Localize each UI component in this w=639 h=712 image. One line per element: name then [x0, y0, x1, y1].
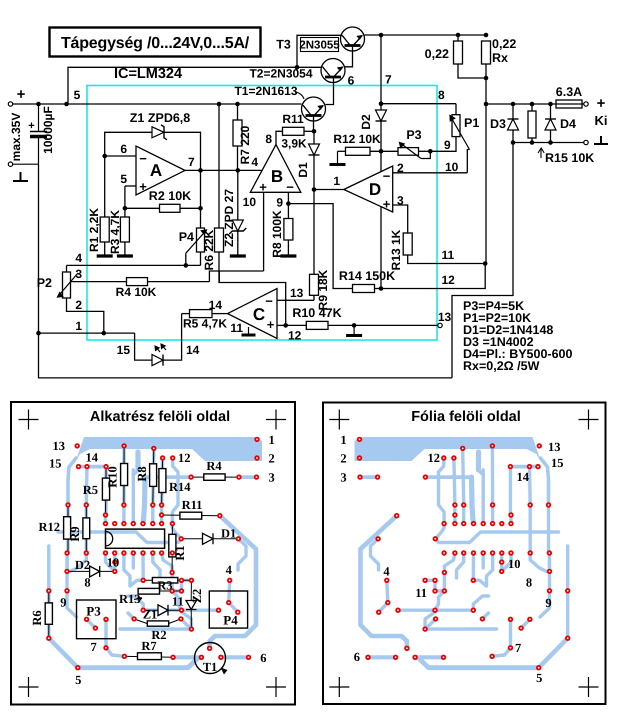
- svg-text:13: 13: [438, 310, 452, 324]
- svg-text:6: 6: [348, 74, 355, 88]
- pcb resistor R13: [138, 588, 159, 594]
- svg-text:4: 4: [383, 565, 390, 579]
- op-amp B: [250, 145, 300, 193]
- PCB solder pads: [75, 443, 80, 448]
- svg-text:−: −: [383, 169, 391, 184]
- wire R11 to T1 base: [304, 130, 314, 132]
- svg-text:B: B: [271, 167, 283, 186]
- svg-text:+: +: [139, 179, 147, 194]
- wire node8 down to P1: [455, 104, 457, 115]
- LM324 IC boundary (cyan): [87, 86, 437, 341]
- svg-text:13: 13: [548, 440, 561, 454]
- svg-text:7: 7: [515, 641, 521, 655]
- PCB corner mark: [266, 410, 286, 430]
- wire minus return loop: [452, 143, 513, 378]
- svg-text:8: 8: [526, 576, 532, 590]
- svg-text:P4: P4: [179, 230, 194, 244]
- svg-text:P3: P3: [406, 128, 421, 142]
- wire rail to 0,22: [457, 35, 459, 41]
- svg-text:12: 12: [442, 273, 456, 287]
- PCB corner mark: [19, 410, 39, 430]
- svg-text:+: +: [28, 120, 34, 132]
- svg-text:A: A: [150, 161, 162, 180]
- junction rail Rx: [484, 33, 489, 38]
- PCB copper traces: [68, 458, 76, 505]
- svg-text:7: 7: [385, 73, 392, 87]
- svg-text:R11: R11: [182, 498, 203, 512]
- ground R3: [117, 254, 133, 257]
- junction R15 top: [530, 102, 535, 107]
- wire R12 to P3: [370, 150, 398, 152]
- junction cap top: [36, 102, 41, 107]
- capacitor C1 10000uF: [38, 104, 40, 131]
- svg-text:R15 10K: R15 10K: [545, 151, 594, 165]
- wire R6 to C plus input: [219, 271, 286, 325]
- label 2N3055 box: [301, 38, 339, 52]
- wire R5 left: [182, 313, 190, 315]
- junction node 5: [64, 102, 69, 107]
- output + terminal: [584, 102, 588, 106]
- wire Z2 top: [237, 170, 239, 220]
- resistor R7 220: [233, 120, 242, 146]
- svg-text:R3 4,7K: R3 4,7K: [108, 210, 122, 254]
- junction A pin6: [102, 154, 107, 159]
- op-amp D: [344, 166, 393, 212]
- resistor R1 2,2K: [100, 217, 109, 242]
- resistor Rx 0,22: [482, 41, 491, 64]
- svg-text:11: 11: [172, 595, 184, 609]
- wire D4 bottom lead: [550, 130, 552, 143]
- wire node 7 vertical: [380, 35, 382, 110]
- wire gnd to R12: [338, 150, 346, 152]
- svg-text:13: 13: [290, 286, 304, 300]
- wire D2 to R14 node: [380, 121, 382, 289]
- svg-text:10: 10: [107, 556, 120, 570]
- wire R9 bottom: [313, 295, 315, 300]
- wire T3 collector: [297, 35, 341, 67]
- junction R7 Z2 pin4: [236, 168, 241, 173]
- svg-text:2: 2: [269, 452, 275, 466]
- wire C pin12: [277, 324, 286, 326]
- svg-text:15: 15: [551, 456, 564, 470]
- junction R2 P4: [198, 206, 203, 211]
- wire D3 bottom lead: [512, 130, 514, 143]
- junction rail R6: [217, 102, 222, 107]
- PCB foil side board: [323, 403, 606, 705]
- wire C pin13: [277, 299, 314, 301]
- transistor T2 2N3054: [321, 59, 345, 83]
- wire to D1: [313, 131, 315, 144]
- svg-text:4: 4: [251, 155, 258, 169]
- wire A pin 5: [125, 185, 136, 187]
- wire Z1 feedback loop: [105, 132, 201, 170]
- svg-text:Rx=0,2Ω /5W: Rx=0,2Ω /5W: [463, 359, 540, 373]
- svg-text:R9 18K: R9 18K: [316, 269, 330, 310]
- resistor R9 18K: [310, 274, 319, 295]
- svg-text:9: 9: [545, 596, 551, 610]
- wire R6 from rail: [218, 104, 220, 228]
- wire D1 bottom: [313, 155, 315, 190]
- pcb resistor R2: [147, 621, 168, 626]
- svg-text:13: 13: [53, 439, 66, 453]
- pcb resistor R9: [83, 518, 90, 539]
- wire D pin3 to R13: [393, 205, 408, 233]
- svg-text:3: 3: [269, 471, 275, 485]
- resistor R11 3,9K: [283, 127, 305, 135]
- wire Z2 bottom: [237, 231, 239, 255]
- pointer to T1: [295, 92, 304, 99]
- terminal node 13: [438, 323, 442, 327]
- wire node 12 link: [381, 264, 485, 289]
- svg-text:7: 7: [188, 155, 195, 169]
- component leads: [49, 446, 239, 657]
- svg-text:R5 4,7K: R5 4,7K: [183, 317, 227, 331]
- pcb resistor R7: [138, 653, 162, 660]
- svg-text:10: 10: [445, 160, 459, 174]
- svg-text:12: 12: [178, 451, 191, 465]
- diode D1: [309, 144, 320, 155]
- resistor R10 47K: [306, 321, 328, 329]
- junction pin12: [283, 323, 288, 328]
- wire R1 bottom: [104, 242, 106, 255]
- svg-text:14: 14: [86, 451, 99, 465]
- svg-text:+: +: [597, 95, 606, 112]
- wire R15 bottom lead: [531, 138, 533, 143]
- svg-text:Z1 ZPD6,8: Z1 ZPD6,8: [130, 111, 190, 125]
- wire to R10: [286, 324, 307, 326]
- svg-text:Fólia felöli oldal: Fólia felöli oldal: [411, 409, 521, 425]
- junction D pin1: [312, 187, 317, 192]
- svg-text:R9: R9: [68, 526, 82, 541]
- junction rail node7: [379, 33, 384, 38]
- svg-text:R8: R8: [135, 466, 149, 481]
- input + terminal: [8, 102, 12, 106]
- svg-text:P4: P4: [223, 613, 238, 628]
- wire R8 top: [287, 204, 289, 219]
- wire node 1: [39, 332, 135, 334]
- wire node3 jog to pin10: [209, 271, 263, 282]
- svg-text:R5: R5: [83, 483, 98, 497]
- svg-text:R14 150K: R14 150K: [339, 269, 395, 283]
- PCB copper traces: [541, 458, 549, 505]
- wire output minus: [513, 142, 584, 144]
- potentiometer P1: [452, 115, 460, 137]
- ground R8: [280, 254, 296, 257]
- wire R3 top: [124, 208, 126, 217]
- wire R8 bottom: [287, 240, 289, 255]
- wire node 11: [408, 255, 486, 264]
- svg-text:R10: R10: [106, 466, 120, 488]
- resistor R4 10K: [127, 278, 148, 286]
- svg-text:R12 10K: R12 10K: [333, 132, 381, 146]
- junction node8 tee: [379, 101, 384, 106]
- svg-text:+: +: [17, 86, 26, 103]
- wire P4 bottom: [200, 252, 202, 265]
- resistor R15 10K: [528, 111, 536, 138]
- svg-text:14: 14: [517, 470, 530, 484]
- svg-text:6: 6: [120, 142, 127, 156]
- svg-text:R6 22K: R6 22K: [202, 229, 216, 270]
- svg-text:Tápegység /0...24V,0...5A/: Tápegység /0...24V,0...5A/: [61, 35, 250, 52]
- PCB solder pads: [537, 443, 542, 448]
- wire T1 base lead: [313, 116, 315, 131]
- svg-text:Z2: Z2: [190, 589, 204, 604]
- svg-text:T3: T3: [276, 38, 291, 52]
- wire R6 link down: [218, 271, 220, 283]
- pcb diode D1: [203, 533, 214, 544]
- svg-text:5: 5: [75, 673, 81, 687]
- svg-text:1: 1: [340, 433, 346, 447]
- junction D4 bottom: [548, 140, 553, 145]
- wire P2 top: [66, 265, 68, 272]
- pcb transistor T1: [195, 643, 226, 674]
- junction R2 R3: [123, 206, 128, 211]
- svg-text:9: 9: [60, 596, 66, 610]
- wire R7 bottom: [237, 146, 239, 170]
- wire output rail from T3 emitter: [365, 34, 487, 36]
- diode D3: [508, 119, 519, 130]
- svg-text:Alkatrész felöli oldal: Alkatrész felöli oldal: [90, 409, 230, 425]
- svg-text:R13 1K: R13 1K: [389, 229, 403, 270]
- svg-text:T2=2N3054: T2=2N3054: [249, 67, 312, 81]
- svg-text:R10 47K: R10 47K: [292, 306, 341, 320]
- svg-text:R7 220: R7 220: [238, 125, 252, 164]
- junction gnd node13: [352, 323, 357, 328]
- wire P3 to node 9: [419, 150, 431, 152]
- pcb pot P3 box: [77, 600, 117, 639]
- junction D4 top: [548, 102, 553, 107]
- junction R14 D2 line: [379, 286, 384, 291]
- PCB corner mark: [329, 410, 349, 430]
- svg-text:6: 6: [260, 651, 266, 665]
- wire R14 right: [375, 288, 382, 290]
- resistor R5 4,7K: [190, 310, 213, 318]
- junction rail R7: [235, 102, 240, 107]
- svg-text:C: C: [253, 305, 265, 324]
- transistor T3 2N3055: [341, 27, 365, 51]
- wire V+ to transistors: [68, 67, 297, 104]
- svg-text:+: +: [259, 180, 267, 195]
- pcb diode D2: [90, 566, 100, 577]
- svg-text:10: 10: [508, 557, 521, 571]
- svg-text:5: 5: [536, 671, 542, 685]
- PCB corner mark: [579, 410, 599, 430]
- title box: [50, 28, 261, 57]
- wire R1 top: [104, 156, 106, 217]
- wire B pin9 down: [287, 192, 289, 203]
- zener Z1: [152, 127, 164, 138]
- wire to T2 collector: [297, 66, 321, 68]
- svg-text:D2: D2: [75, 558, 90, 572]
- svg-text:10: 10: [243, 195, 257, 209]
- wire pin5 down: [124, 186, 126, 208]
- svg-text:7: 7: [90, 640, 96, 654]
- pcb resistor R5: [102, 478, 109, 500]
- potentiometer P2: [63, 272, 71, 298]
- PCB corner mark: [266, 677, 286, 697]
- wire R6 bottom: [218, 252, 220, 271]
- input - terminal: [8, 162, 12, 166]
- wire R9 top: [313, 190, 315, 275]
- output - terminal: [584, 140, 588, 144]
- diode D4: [545, 119, 556, 130]
- junction R11 D1: [312, 129, 317, 134]
- wire node 3: [71, 281, 210, 283]
- input minus symbol: [13, 172, 28, 181]
- PCB component side board: [11, 402, 295, 705]
- junction rail 0,22: [456, 33, 461, 38]
- wire B pin10 down: [263, 192, 265, 271]
- wire to LED: [135, 333, 152, 360]
- svg-text:3,9K: 3,9K: [281, 137, 307, 151]
- junction node 9: [428, 149, 433, 154]
- pcb resistor R3: [152, 578, 177, 584]
- pcb resistor R12: [64, 517, 71, 539]
- svg-text:R1 2,2K: R1 2,2K: [87, 208, 101, 252]
- PCB ground pour: [355, 437, 543, 466]
- wire to R2: [125, 207, 160, 209]
- svg-text:P2: P2: [37, 276, 52, 290]
- junction R15 bottom: [530, 140, 535, 145]
- pcb resistor R4: [204, 474, 225, 480]
- svg-text:R1: R1: [173, 545, 187, 560]
- PCB corner mark: [19, 677, 39, 697]
- pcb resistor R8: [150, 464, 157, 487]
- junction sense tap: [484, 102, 489, 107]
- pcb resistor R10: [121, 464, 128, 486]
- ground R12: [337, 151, 339, 164]
- op-amp C: [228, 289, 277, 339]
- svg-text:P1: P1: [464, 116, 479, 130]
- svg-text:+: +: [267, 317, 275, 332]
- wire P1 wiper down: [467, 150, 469, 173]
- svg-text:14: 14: [186, 343, 200, 357]
- wire A out to B pin4: [185, 169, 262, 171]
- R15 pointer arrow: [538, 148, 544, 158]
- wire C pin14: [212, 313, 228, 315]
- output minus symbol: [594, 136, 608, 144]
- wire node 4: [67, 264, 201, 266]
- svg-text:8: 8: [438, 88, 445, 102]
- pcb zener Z2: [186, 601, 197, 610]
- potentiometer P4: [197, 228, 205, 252]
- svg-text:11: 11: [442, 248, 455, 262]
- svg-text:T1=2N1613: T1=2N1613: [234, 84, 297, 98]
- svg-text:P3: P3: [86, 604, 101, 619]
- svg-text:Ki: Ki: [595, 113, 608, 128]
- pcb resistor R14: [159, 469, 166, 493]
- svg-text:2: 2: [397, 161, 404, 175]
- R13 pointer arrow: [134, 597, 142, 601]
- wire D pin1: [314, 189, 344, 191]
- svg-text:4: 4: [75, 251, 82, 265]
- svg-text:5: 5: [74, 88, 81, 102]
- junction D3 bottom: [511, 140, 516, 145]
- svg-text:15: 15: [117, 343, 131, 357]
- svg-text:1: 1: [75, 319, 82, 333]
- transistor T1 2N1613: [302, 97, 326, 121]
- resistor R3 4,7K: [120, 217, 129, 242]
- resistor R14 150K: [353, 285, 375, 293]
- svg-text:0,22: 0,22: [425, 47, 449, 61]
- svg-text:D1: D1: [221, 527, 236, 541]
- svg-text:6.3A: 6.3A: [556, 85, 582, 99]
- wire pin9 to R14: [288, 204, 352, 289]
- junction R12 P3 node: [379, 149, 384, 154]
- wire P4 wiper down: [185, 253, 187, 265]
- svg-text:4: 4: [226, 563, 233, 577]
- svg-text:−: −: [286, 180, 294, 195]
- svg-text:−: −: [265, 294, 273, 309]
- svg-text:R2: R2: [151, 628, 166, 642]
- svg-text:5: 5: [120, 172, 127, 186]
- wire R15 top lead: [531, 104, 533, 111]
- wire R3 bottom: [124, 242, 126, 255]
- fuse 6.3A: [556, 100, 582, 108]
- wire node 8 to P1: [381, 103, 456, 105]
- PCB ground pour: [74, 437, 262, 466]
- svg-text:0,22: 0,22: [492, 37, 516, 51]
- pcb resistor R11: [180, 512, 202, 519]
- resistor R6 22K: [215, 228, 224, 252]
- svg-text:1: 1: [269, 433, 275, 447]
- svg-text:12: 12: [288, 329, 302, 343]
- wire minus rail down: [38, 164, 40, 333]
- wire V+ rail node 5: [13, 103, 302, 105]
- svg-text:R4: R4: [206, 459, 222, 473]
- diode D2: [376, 110, 387, 121]
- ground node 13: [353, 325, 355, 335]
- pcb resistor R1: [169, 534, 176, 557]
- junction wire4 P4: [184, 263, 189, 268]
- ground C pin11: [248, 327, 250, 335]
- svg-text:9: 9: [444, 138, 451, 152]
- wire node 10 to opamp D pin2: [393, 172, 468, 174]
- svg-text:11: 11: [230, 321, 243, 335]
- wire node 13: [328, 324, 438, 326]
- IC LM324 outline: [106, 529, 165, 548]
- svg-text:2N3055: 2N3055: [299, 40, 340, 52]
- wire to fuse: [486, 103, 556, 105]
- resistor R2 10K: [160, 204, 181, 212]
- op-amp A: [136, 146, 185, 195]
- pcb resistor R6: [45, 603, 52, 624]
- wire B out pin8: [276, 131, 283, 144]
- junction T3 collector drop: [295, 65, 300, 70]
- svg-text:−: −: [139, 151, 147, 166]
- svg-text:6: 6: [354, 650, 360, 664]
- pcb pot P4 box: [209, 591, 247, 628]
- wire D3 top lead: [512, 104, 514, 119]
- junction node1 node2: [102, 331, 107, 336]
- svg-text:D2: D2: [359, 114, 373, 130]
- junction wire1 left: [36, 331, 41, 336]
- svg-text:12: 12: [428, 451, 441, 465]
- svg-text:R12: R12: [38, 520, 60, 534]
- svg-text:2: 2: [340, 452, 346, 466]
- LED indicator: [152, 355, 163, 366]
- svg-text:3: 3: [340, 471, 346, 485]
- svg-text:D: D: [369, 180, 381, 199]
- svg-text:+: +: [383, 197, 391, 212]
- svg-text:10000µF: 10000µF: [41, 106, 55, 154]
- wire A pin 6: [105, 155, 136, 157]
- wire R7 top: [237, 104, 239, 120]
- svg-text:15: 15: [49, 457, 62, 471]
- wire Rx bottom: [485, 64, 487, 104]
- wire fuse to terminal: [582, 103, 584, 105]
- wire LED to R5: [163, 314, 182, 361]
